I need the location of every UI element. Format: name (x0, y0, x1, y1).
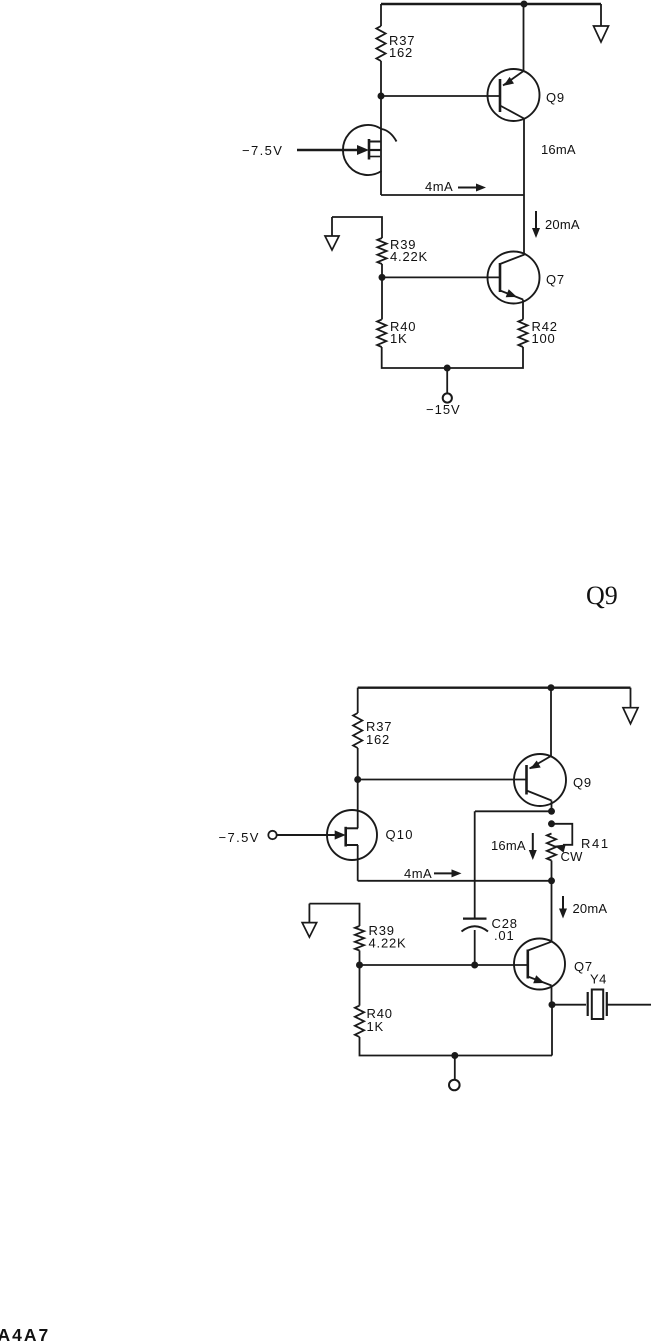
svg-text:4.22K: 4.22K (369, 936, 407, 951)
transistor Q7 (lower circuit, NPN) (514, 939, 565, 990)
node J: bottom terminal junction (lower circuit) (451, 1052, 458, 1059)
wire bottom rail (top circuit) (382, 347, 523, 368)
value label R40 1K (lower circuit) (367, 1006, 393, 1034)
svg-text:4.22K: 4.22K (390, 249, 428, 264)
wire Q9 collector down (lower circuit) (551, 801, 553, 812)
current label 16mA (top circuit) (541, 142, 576, 157)
wire 4mA rail (lower circuit) (358, 880, 552, 882)
current label 4mA (top circuit) (425, 179, 453, 194)
label Y4 (lower circuit) (590, 972, 607, 987)
crystal Y4 (lower circuit) (588, 990, 607, 1020)
wire Q7 base (lower circuit) (360, 964, 527, 966)
wire -7.5V gate lead (lower circuit) (277, 834, 336, 836)
svg-text:R41: R41 (581, 836, 610, 851)
svg-text:162: 162 (366, 732, 390, 747)
label -7.5V (lower circuit) (219, 830, 260, 845)
svg-text:162: 162 (389, 45, 413, 60)
wire to -15V terminal (top circuit) (446, 368, 448, 393)
resistor R39 (lower circuit) (355, 926, 364, 951)
wire junction to R40 (top circuit) (381, 277, 383, 319)
arrow 20mA down (top circuit) (532, 211, 540, 238)
current label 20mA (top circuit) (545, 217, 580, 232)
value label C28 .01 (lower circuit) (492, 916, 518, 943)
resistor R37 (lower circuit) (353, 713, 362, 748)
capacitor C28 (lower circuit) (462, 919, 489, 932)
transistor Q9 (lower circuit, PNP) (514, 754, 566, 806)
svg-text:20mA: 20mA (545, 217, 580, 232)
node I: emitter / Y4 junction (lower circuit) (549, 1001, 556, 1008)
arrowhead gate (top circuit) (357, 145, 369, 155)
node junction top rail / Q9 emitter (lower circuit) (548, 684, 555, 691)
wire R37 to junction (lower circuit) (357, 748, 359, 780)
current label 16mA (lower circuit) (491, 838, 526, 853)
svg-text:Q9: Q9 (546, 90, 565, 105)
node G: R39 / R40 / Q7 base junction (lower circuit) (356, 962, 363, 969)
transistor Q9 (top circuit, PNP) (488, 69, 540, 121)
label Q9 (lower circuit) (573, 775, 592, 790)
wire -7.5V gate lead (top circuit) (297, 149, 359, 151)
svg-text:Q7: Q7 (546, 272, 565, 287)
resistor R39 (top circuit) (377, 238, 386, 264)
page label A4A7 (0, 1325, 50, 1344)
wire ground to R39 (top circuit) (332, 217, 382, 238)
label Q7 (lower circuit) (574, 959, 593, 974)
svg-text:A4A7: A4A7 (0, 1325, 50, 1344)
svg-text:CW: CW (561, 849, 584, 864)
svg-text:−7.5V: −7.5V (242, 143, 283, 158)
resistor R42 (top circuit) (518, 320, 527, 348)
current label 4mA (lower circuit) (404, 866, 432, 881)
wire Y4 right lead (lower circuit) (607, 1004, 651, 1006)
label R41 (lower circuit) (581, 836, 610, 851)
wire emitter node to bottom rail (lower circuit) (551, 1005, 553, 1056)
svg-text:Q9: Q9 (573, 775, 592, 790)
current label 20mA (lower circuit) (573, 901, 608, 916)
ground symbol left (top circuit) (325, 217, 339, 250)
wire Q9 emitter up to rail (top circuit) (523, 4, 525, 71)
resistor R40 (top circuit) (377, 320, 386, 348)
label -15V (top circuit) (426, 402, 461, 417)
svg-text:1K: 1K (390, 331, 408, 346)
wire R39 to junction (lower circuit) (359, 951, 361, 966)
ground symbol top right (top circuit) (594, 4, 609, 42)
svg-text:20mA: 20mA (573, 901, 608, 916)
wire Q10 drain up to junction (lower circuit) (357, 780, 359, 829)
arrow 4mA right (lower circuit) (434, 869, 462, 877)
svg-text:100: 100 (532, 331, 556, 346)
value label R40 1K (top circuit) (390, 319, 416, 346)
node D: Q9 collector junction (lower circuit) (548, 808, 555, 815)
wire 4mA feedback (top circuit) (381, 194, 524, 196)
wire R37 bottom to FET column (top circuit) (380, 61, 382, 195)
node E: R41 top junction (lower circuit) (548, 820, 555, 827)
wire collector node to C28 branch (lower circuit) (475, 810, 552, 812)
ground symbol top right (lower circuit) (623, 688, 638, 724)
svg-text:1K: 1K (367, 1019, 385, 1034)
wire R41 wiper loop (lower circuit) (552, 824, 573, 845)
wire Q9 base (top circuit) (381, 95, 499, 97)
wire Q10 source down to 4mA rail (lower circuit) (357, 845, 359, 881)
label CW (lower circuit) (561, 849, 584, 864)
svg-text:−7.5V: −7.5V (219, 830, 260, 845)
terminal -7.5V open circle (lower circuit) (268, 831, 276, 839)
svg-text:4mA: 4mA (404, 866, 432, 881)
label Q9 (top circuit) (546, 90, 565, 105)
value label R39 4.22K (lower circuit) (369, 923, 407, 951)
svg-text:4mA: 4mA (425, 179, 453, 194)
wire top rail (lower circuit) (358, 688, 631, 713)
svg-text:.01: .01 (494, 928, 514, 943)
wire bottom rail (lower circuit) (360, 965, 553, 1056)
transistor FET (top circuit, unlabeled) (343, 125, 397, 175)
value label R39 4.22K (top circuit) (390, 237, 428, 264)
caption text Q9 (serif, between figures) (586, 581, 618, 610)
wire Q9 base (lower circuit) (358, 779, 526, 781)
node C: R37 / Q9 base / Q10 drain junction (lower circuit) (354, 776, 361, 783)
wire R39 to junction (top circuit) (381, 264, 383, 277)
label Q10 (lower circuit) (386, 827, 414, 842)
svg-text:16mA: 16mA (541, 142, 576, 157)
node H: C28 / base junction (lower circuit) (471, 962, 478, 969)
arrow 16mA down (lower circuit) (529, 833, 537, 860)
wire Q9 emitter up to rail (lower circuit) (550, 688, 552, 756)
node F: 4mA / R41 / Q7 collector junction (lower circuit) (548, 877, 555, 884)
arrow 4mA right (top circuit) (458, 184, 486, 192)
terminal -15V open circle (top circuit) (443, 393, 452, 402)
label Q7 (top circuit) (546, 272, 565, 287)
svg-text:Y4: Y4 (590, 972, 607, 987)
svg-text:Q9: Q9 (586, 581, 618, 610)
node junction top rail / Q9 emitter (top circuit) (521, 1, 528, 8)
wire C28 bottom lead (lower circuit) (474, 930, 476, 965)
node B: R39 / R40 / Q7 base junction (top circuit) (379, 274, 386, 281)
value label R42 100 (top circuit) (532, 319, 558, 346)
svg-text:16mA: 16mA (491, 838, 526, 853)
transistor Q7 (top circuit, NPN) (488, 252, 540, 304)
wire Q7 emitter to R42 (top circuit) (522, 300, 524, 320)
wire top rail (top circuit) (381, 4, 601, 26)
wire Q7 collector (lower circuit) (551, 881, 553, 942)
terminal open circle bottom (lower circuit) (449, 1080, 460, 1091)
value label R37 162 (top circuit) (389, 33, 415, 60)
svg-text:Q10: Q10 (386, 827, 414, 842)
label -7.5V (top circuit) (242, 143, 283, 158)
wire ground to R39 (lower circuit) (309, 904, 359, 926)
resistor R40 (lower circuit) (355, 1006, 364, 1037)
wire Q7 emitter down (lower circuit) (551, 986, 553, 1005)
arrowhead Q10 gate (lower circuit) (335, 830, 346, 839)
wire R41 bottom to 4mA node (lower circuit) (551, 861, 553, 881)
resistor R37 (top circuit) (376, 26, 385, 61)
node A: R37 / Q9 base / FET drain junction (top circuit) (378, 93, 385, 100)
value label R37 162 (lower circuit) (366, 719, 392, 747)
svg-text:−15V: −15V (426, 402, 461, 417)
wire to bottom terminal (lower circuit) (454, 1056, 456, 1080)
wire Q7 collector up (top circuit) (524, 253, 526, 255)
wire C28 top lead (lower circuit) (474, 811, 476, 918)
node -15V junction (top circuit) (444, 365, 451, 372)
wire Y4 left lead (lower circuit) (552, 1004, 586, 1006)
arrow 20mA down (lower circuit) (559, 896, 567, 919)
wire Q7 base (top circuit) (382, 276, 499, 278)
transistor Q10 (lower circuit, FET) (327, 810, 377, 860)
wire Q9 collector down to Q7 (top circuit) (523, 119, 525, 254)
ground symbol left (lower circuit) (302, 904, 317, 938)
potentiometer R41 (lower circuit) (547, 834, 556, 861)
arrowhead R41 wiper (lower circuit) (555, 845, 566, 853)
